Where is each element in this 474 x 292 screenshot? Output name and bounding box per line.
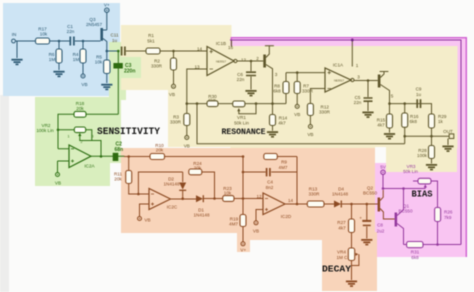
node bias bus junction bbox=[351, 39, 354, 42]
region: bias highlight (pink) bbox=[375, 163, 467, 257]
node R11 junction bbox=[127, 155, 130, 158]
svg-text:5: 5 bbox=[391, 94, 394, 99]
potentiometer VR1 50k Lin bbox=[233, 101, 256, 126]
svg-text:R26: R26 bbox=[444, 210, 453, 215]
svg-text:VB: VB bbox=[184, 143, 190, 148]
svg-text:20k: 20k bbox=[114, 177, 122, 182]
svg-text:16: 16 bbox=[228, 45, 234, 50]
resistor R24 20k bbox=[189, 161, 215, 199]
resistor R9 4M7 bbox=[264, 154, 297, 171]
svg-text:3: 3 bbox=[357, 75, 360, 80]
svg-text:4k7: 4k7 bbox=[338, 226, 346, 231]
node D2 output junction bbox=[181, 197, 184, 200]
node R4 junction bbox=[82, 40, 85, 43]
transistor Q1 BC550 bbox=[395, 189, 413, 245]
region: sensitivity highlight main (green) bbox=[35, 97, 121, 163]
svg-text:330R: 330R bbox=[319, 110, 331, 115]
svg-text:RESONANCE: RESONANCE bbox=[222, 127, 266, 137]
op-amp IC1B (OTA NE5517) bbox=[194, 41, 234, 76]
svg-text:1: 1 bbox=[356, 63, 359, 68]
resistor R14 4k7 bbox=[270, 104, 288, 131]
node Q1 collector junction bbox=[402, 187, 405, 190]
svg-text:2: 2 bbox=[256, 56, 259, 61]
svg-text:VB: VB bbox=[144, 218, 150, 223]
svg-text:C8: C8 bbox=[377, 223, 383, 228]
ground under R28 bbox=[426, 164, 437, 170]
wire R17 to C1 bbox=[50, 40, 70, 42]
node R6 junction bbox=[58, 40, 61, 43]
op-amp IC1A (OTA NE5517) bbox=[325, 63, 351, 93]
node VR1 return junction bbox=[255, 102, 258, 105]
node C3 junction bbox=[117, 50, 120, 53]
wire R8 top rail to IC1A plus bbox=[286, 72, 325, 74]
svg-text:14: 14 bbox=[288, 198, 294, 203]
svg-text:1N4148: 1N4148 bbox=[163, 182, 180, 187]
wire R31 rail bbox=[404, 244, 462, 246]
svg-text:R1: R1 bbox=[148, 33, 154, 38]
node R16 out tap bbox=[403, 135, 406, 138]
region: decay highlight mid extension (orange) bbox=[238, 233, 375, 240]
resistor R16 6k8 bbox=[402, 104, 419, 144]
wire node to VR2 bbox=[58, 129, 74, 131]
capacitor C6 22n bbox=[237, 61, 256, 90]
node VB (IC2C) bbox=[138, 217, 151, 223]
svg-text:VR1: VR1 bbox=[237, 115, 246, 120]
node emitter/R15 junction bbox=[388, 102, 391, 105]
ground under R5 bbox=[101, 84, 112, 90]
wire feedback rail lower bbox=[197, 104, 405, 144]
svg-text:V+: V+ bbox=[240, 248, 246, 253]
rail resonance bias bbox=[187, 103, 286, 105]
node R19/R9 junction bbox=[242, 197, 245, 200]
resistor R23 10k bbox=[223, 186, 263, 201]
svg-text:4M7: 4M7 bbox=[279, 165, 288, 170]
resistor R8 6k8 bbox=[273, 73, 289, 104]
svg-text:SENSITIVITY: SENSITIVITY bbox=[97, 126, 160, 137]
svg-text:1M C: 1M C bbox=[337, 255, 349, 260]
region: filter core frame (pink) bbox=[231, 37, 467, 177]
resistor R13 330R bbox=[307, 187, 334, 208]
node VB (R3) bbox=[184, 136, 190, 149]
ground under IN bbox=[11, 59, 22, 65]
svg-text:7k9: 7k9 bbox=[444, 215, 452, 220]
wire C3 column bbox=[86, 51, 118, 114]
node IC1A output bbox=[351, 75, 378, 82]
node V+ (R19) bbox=[240, 242, 246, 253]
svg-text:IN: IN bbox=[12, 32, 17, 37]
svg-text:220n: 220n bbox=[124, 69, 135, 75]
ground under R14 bbox=[267, 131, 278, 137]
capacitor C11 1u bbox=[110, 33, 124, 56]
op-amp IC2A bbox=[58, 145, 96, 169]
node VB (R12) bbox=[307, 125, 313, 138]
region: resonance highlight upper-left (yellow) bbox=[121, 25, 232, 90]
svg-text:DECAY: DECAY bbox=[322, 264, 351, 275]
svg-text:14: 14 bbox=[197, 47, 203, 52]
wire IC1B minus input to rail bbox=[187, 69, 207, 104]
pin 1 bias wire of IC1A bbox=[352, 40, 358, 68]
svg-text:22n: 22n bbox=[354, 100, 362, 105]
wire R1 to IC1B plus input bbox=[160, 50, 207, 52]
svg-text:330R: 330R bbox=[302, 88, 314, 93]
svg-text:IC2C: IC2C bbox=[167, 205, 178, 210]
svg-text:330R: 330R bbox=[309, 191, 321, 196]
svg-text:VB: VB bbox=[294, 112, 300, 117]
svg-text:1k: 1k bbox=[438, 119, 444, 124]
svg-text:4k7: 4k7 bbox=[377, 123, 385, 128]
resistor R15 4k7 bbox=[377, 104, 393, 133]
node C8 junction bbox=[366, 203, 369, 206]
svg-text:BC550: BC550 bbox=[363, 191, 377, 196]
node VR2 left junction bbox=[57, 129, 60, 132]
svg-text:VB: VB bbox=[253, 229, 259, 234]
resistor R28 100k bbox=[417, 136, 434, 163]
svg-text:1: 1 bbox=[68, 134, 70, 138]
capacitor C2 68n bbox=[113, 142, 123, 162]
node Q3 source junction bbox=[106, 50, 109, 53]
svg-text:C9: C9 bbox=[416, 87, 422, 92]
potentiometer VR4 1M C bbox=[337, 248, 359, 280]
svg-text:1M: 1M bbox=[73, 57, 80, 62]
svg-text:50k Lin: 50k Lin bbox=[403, 169, 418, 174]
capacitor C4 8n2 bbox=[243, 168, 297, 190]
svg-text:1N4148: 1N4148 bbox=[193, 213, 210, 218]
svg-text:10k: 10k bbox=[224, 191, 232, 196]
svg-text:5V: 5V bbox=[380, 165, 387, 170]
wire IC2A output bbox=[91, 155, 124, 157]
wire OUT line bbox=[405, 135, 449, 137]
diode D4 1N4148 bbox=[332, 187, 378, 208]
node 5V junction bbox=[382, 187, 385, 190]
node R16 top junction bbox=[403, 102, 406, 105]
op-amp IC2C bbox=[140, 189, 178, 217]
svg-text:10k: 10k bbox=[95, 60, 103, 65]
potentiometer VR2 100k Lin bbox=[36, 123, 101, 156]
wire C1 to Q3 gate bbox=[75, 40, 101, 42]
resistor R7 330R bbox=[294, 73, 313, 105]
resistor R3 330R bbox=[170, 104, 190, 136]
svg-text:VB: VB bbox=[307, 132, 313, 137]
svg-text:12: 12 bbox=[241, 58, 247, 63]
region: decay highlight lower lobe (orange) bbox=[322, 232, 377, 291]
ground under R15 bbox=[384, 133, 395, 139]
svg-text:R31: R31 bbox=[411, 250, 420, 255]
resistor R26 7k9 bbox=[435, 208, 453, 245]
capacitor C5 22n bbox=[354, 81, 373, 112]
ground under R6 bbox=[53, 71, 64, 77]
resistor R30 6k8 bbox=[207, 94, 218, 107]
resistor R4 1M bbox=[73, 41, 86, 74]
diode D2 1N4148 bbox=[163, 172, 186, 199]
node rail left junction bbox=[186, 102, 189, 105]
svg-text:V+: V+ bbox=[104, 3, 110, 8]
ground under OUT bbox=[442, 146, 453, 152]
resistor R29 1k bbox=[429, 114, 447, 128]
capacitor C9 1u bbox=[416, 87, 422, 109]
svg-text:VR4: VR4 bbox=[337, 250, 346, 255]
diode D1 1N4148 bbox=[193, 195, 222, 217]
wire IN down to ground bbox=[16, 42, 18, 59]
svg-text:22n: 22n bbox=[237, 77, 245, 82]
node IC1B output bbox=[234, 58, 264, 63]
svg-text:4M7: 4M7 bbox=[229, 222, 238, 227]
resistor R12 330R bbox=[307, 104, 330, 125]
svg-text:BIAS: BIAS bbox=[412, 189, 433, 199]
wire feedback to D2/R24 rail bbox=[138, 172, 182, 194]
transistor Q2 BC550 bbox=[363, 185, 395, 219]
node C5 junction bbox=[367, 79, 370, 82]
svg-text:NE5517: NE5517 bbox=[216, 60, 227, 64]
resistor R11 20k bbox=[114, 157, 149, 195]
wire rail A (C2 to R9 column) bbox=[124, 156, 243, 158]
node V+ supply bbox=[104, 3, 110, 13]
node R7 top junction bbox=[296, 71, 299, 74]
node VB (IC2A) bbox=[55, 161, 61, 186]
svg-text:+: + bbox=[359, 216, 362, 221]
connector IN bbox=[12, 32, 17, 43]
region: sensitivity highlight lower (green) bbox=[35, 155, 110, 186]
resistor R19 4M7 bbox=[229, 199, 246, 242]
svg-text:20k: 20k bbox=[76, 106, 84, 111]
node 5V supply bbox=[380, 165, 387, 189]
region: decay highlight main (orange) bbox=[121, 148, 375, 233]
region: filter core interior notch around OUT (yellow) bbox=[386, 147, 457, 172]
wire R9/C4 feedback column left bbox=[242, 157, 244, 199]
resistor R18 20k bbox=[74, 101, 86, 117]
node rail A to column junction bbox=[242, 155, 245, 158]
svg-text:8n2: 8n2 bbox=[266, 185, 274, 190]
resistor R27 4k7 bbox=[337, 204, 354, 248]
node R27 junction bbox=[350, 203, 353, 206]
svg-text:1u: 1u bbox=[112, 38, 118, 43]
svg-text:VB: VB bbox=[55, 181, 61, 186]
left margin shading bbox=[0, 95, 9, 292]
node VB (R2) bbox=[169, 84, 176, 97]
wire output rail right bbox=[390, 104, 432, 137]
svg-text:50k Lin: 50k Lin bbox=[234, 121, 249, 126]
node VB (R4) bbox=[81, 74, 88, 87]
svg-text:1N4148: 1N4148 bbox=[332, 192, 349, 197]
region: input highlight (blue) bbox=[3, 3, 120, 96]
node R24 return junction bbox=[213, 197, 216, 200]
node R2 junction bbox=[172, 50, 175, 53]
transistor Q buffer A bbox=[378, 72, 394, 104]
capacitor C3 220n bbox=[113, 63, 135, 75]
connector OUT bbox=[443, 129, 454, 145]
svg-text:OUT: OUT bbox=[443, 129, 453, 134]
resistor R5 10k bbox=[95, 51, 110, 83]
wire R18 left to IC2A minus column bbox=[58, 114, 74, 149]
transistor Q buffer B bbox=[256, 46, 278, 104]
node C4 branch junction bbox=[242, 171, 245, 174]
ground under C5 bbox=[362, 112, 373, 118]
capacitor C8 2u2 (electrolytic) bbox=[359, 204, 385, 239]
node R9 output junction bbox=[296, 203, 299, 206]
resistor R6 1M bbox=[49, 41, 62, 70]
svg-text:100k: 100k bbox=[417, 153, 428, 158]
svg-text:20k: 20k bbox=[156, 148, 164, 153]
svg-text:VB: VB bbox=[169, 92, 175, 97]
svg-text:330R: 330R bbox=[151, 64, 163, 69]
ground under C6 bbox=[245, 90, 256, 96]
svg-text:R9: R9 bbox=[281, 160, 287, 165]
svg-text:C11: C11 bbox=[110, 33, 119, 38]
svg-text:IC2A: IC2A bbox=[84, 164, 95, 169]
wire R9/C4 feedback column right bbox=[296, 157, 298, 205]
wire IC2C output bbox=[171, 198, 197, 201]
wire IC1A minus input bbox=[310, 89, 325, 104]
node VB (R7) bbox=[294, 104, 300, 116]
svg-text:6k8: 6k8 bbox=[410, 119, 418, 124]
node R26 bottom junction bbox=[436, 243, 439, 246]
wire IN to R17 bbox=[15, 40, 35, 42]
svg-text:2u2: 2u2 bbox=[377, 229, 385, 234]
node C6 junction bbox=[250, 60, 253, 63]
region: sensitivity highlight strip (green) bbox=[109, 42, 126, 100]
wire IC2D output bbox=[285, 203, 307, 205]
svg-text:IC1A: IC1A bbox=[333, 63, 344, 68]
svg-text:68n: 68n bbox=[115, 147, 124, 153]
resistor R31 6k8 bbox=[407, 242, 423, 260]
region: sensitivity highlight C3 bulge (green) bbox=[109, 57, 141, 78]
ground under C8 bbox=[361, 239, 372, 245]
node VB (IC2D) bbox=[253, 221, 259, 234]
svg-text:5k1: 5k1 bbox=[147, 39, 155, 44]
svg-text:10k: 10k bbox=[40, 32, 48, 37]
resistor R2 330R bbox=[151, 51, 176, 84]
wire C11 to R1 bbox=[126, 50, 146, 52]
svg-text:3: 3 bbox=[275, 72, 278, 77]
resistor R1 5k1 bbox=[146, 33, 160, 54]
svg-text:6k8: 6k8 bbox=[273, 88, 281, 93]
region: decay highlight V+ tab (orange) bbox=[237, 233, 250, 252]
svg-text:22n: 22n bbox=[67, 29, 75, 34]
region: frame border top bbox=[231, 38, 466, 257]
wire control bus on frame bbox=[230, 40, 461, 245]
node emitter/R14 junction bbox=[271, 102, 274, 105]
svg-text:2N5457: 2N5457 bbox=[86, 22, 103, 27]
capacitor C1 22n bbox=[67, 24, 75, 46]
svg-text:R27: R27 bbox=[337, 220, 346, 225]
node rail feedback junction bbox=[196, 102, 199, 105]
region: filter core interior (yellow) bbox=[231, 46, 458, 149]
node VR2 wiper to output junction bbox=[100, 155, 103, 158]
node OUT junction bbox=[430, 135, 433, 138]
resistor R10 20k bbox=[150, 143, 165, 160]
svg-text:IC1B: IC1B bbox=[216, 41, 226, 46]
svg-text:100k Lin: 100k Lin bbox=[36, 128, 54, 133]
node IC2C feedback junction bbox=[137, 193, 140, 196]
op-amp IC2D bbox=[256, 193, 293, 221]
svg-text:VB: VB bbox=[81, 82, 87, 87]
svg-text:330R: 330R bbox=[170, 120, 182, 125]
svg-text:12: 12 bbox=[256, 194, 262, 199]
wire 5V to VR3 wiper bbox=[383, 188, 425, 190]
potentiometer VR3 50k Lin bbox=[403, 164, 437, 208]
svg-text:4k7: 4k7 bbox=[278, 121, 286, 126]
svg-text:C4: C4 bbox=[267, 180, 273, 185]
resistor R17 10k bbox=[36, 27, 50, 45]
region: white gap left of 5V bbox=[375, 147, 386, 163]
svg-text:6k8: 6k8 bbox=[411, 255, 419, 260]
svg-text:NE5517: NE5517 bbox=[334, 79, 345, 83]
ground under VR4 bbox=[346, 281, 357, 287]
svg-text:1M: 1M bbox=[49, 57, 56, 62]
wire source node to C3 node bbox=[107, 50, 119, 52]
svg-text:IC2D: IC2D bbox=[281, 214, 292, 219]
region: resonance highlight lower-left (yellow) bbox=[168, 85, 240, 147]
pin 16 wire of IC1B bbox=[228, 40, 234, 50]
svg-text:1u: 1u bbox=[416, 92, 422, 97]
transistor Q3 2N5457 bbox=[86, 12, 107, 51]
